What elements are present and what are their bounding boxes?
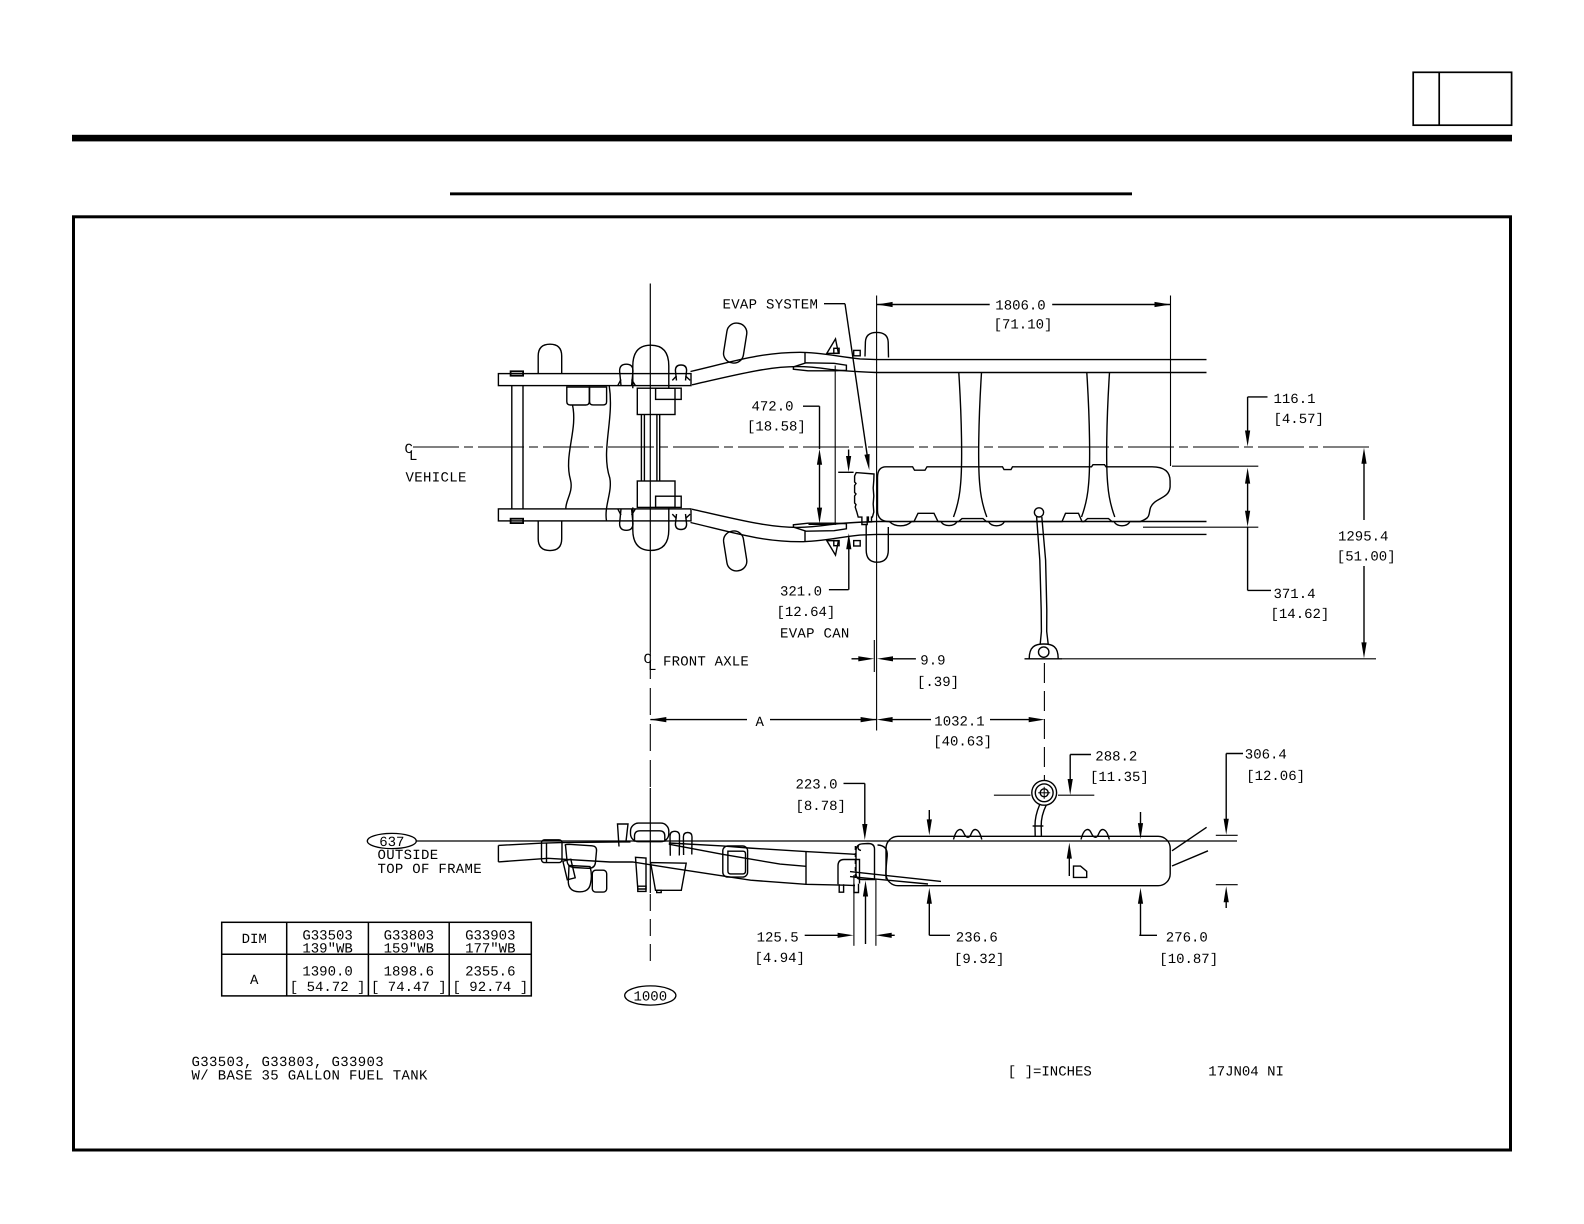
tank drain flap (1074, 866, 1087, 877)
dimension 125.5 [4.94] (853, 875, 855, 946)
svg-text:288.2: 288.2 (1095, 749, 1137, 765)
svg-text:1806.0: 1806.0 (995, 299, 1045, 315)
frame rail top inboard edge (plan) (692, 367, 1207, 385)
svg-text:[10.87]: [10.87] (1159, 952, 1218, 968)
rail joint tick top (804, 352, 806, 362)
rail joint tick bottom (804, 532, 806, 542)
svg-text:EVAP SYSTEM: EVAP SYSTEM (723, 297, 819, 313)
frame rail side view bottom edge (498, 858, 855, 885)
filler pipe to tank (side) (1035, 805, 1040, 837)
svg-text:[8.78]: [8.78] (796, 799, 846, 815)
clamp flag upper rail (827, 339, 839, 354)
tilted shock absorber lower (plan) (722, 530, 748, 573)
spring hanger upper-left (620, 364, 633, 385)
reference line outside top of frame (416, 840, 1237, 842)
crossmember No3 (plan) (954, 373, 962, 518)
front hanger bracket cluster (565, 844, 596, 868)
top header rule (thick) (72, 135, 1512, 142)
svg-text:[.39]: [.39] (917, 675, 959, 691)
spring bracket under top rail (793, 363, 846, 371)
tank strap bumps left (954, 830, 982, 840)
filler centerline dashed (1043, 663, 1045, 781)
front crossmember bottom bar (plan) (498, 509, 691, 521)
svg-text:159"WB: 159"WB (384, 942, 434, 958)
frame lines behind tank (850, 872, 941, 882)
fuel filler pipe (plan) (1037, 517, 1042, 645)
svg-text:EVAP CAN: EVAP CAN (780, 627, 850, 643)
spring hanger upper-right (675, 365, 686, 381)
svg-text:125.5: 125.5 (757, 930, 799, 946)
svg-text:[11.35]: [11.35] (1090, 770, 1149, 786)
svg-text:2355.6: 2355.6 (465, 964, 515, 980)
svg-text:1295.4: 1295.4 (1338, 530, 1388, 546)
svg-text:116.1: 116.1 (1274, 392, 1316, 408)
dimension 276.0 [10.87] (1140, 812, 1142, 826)
svg-text:[12.64]: [12.64] (777, 605, 836, 621)
spring bracket above bottom rail (793, 523, 846, 531)
svg-text:[ 92.74 ]: [ 92.74 ] (452, 980, 528, 996)
front crossmember top bar (plan) (498, 374, 691, 386)
svg-text:1000: 1000 (633, 989, 667, 1005)
dimension 9.9 [.39] (873, 640, 875, 672)
dimension 116.1 [4.57] (1248, 396, 1268, 398)
dimension 1806.0 [71.10] (876, 296, 878, 731)
small bracket square on bottom rail (854, 541, 861, 546)
svg-text:[4.94]: [4.94] (755, 951, 805, 967)
svg-text:[4.57]: [4.57] (1274, 412, 1324, 428)
svg-text:177"WB: 177"WB (465, 942, 515, 958)
svg-text:[18.58]: [18.58] (747, 420, 806, 436)
frame clip loops (670, 831, 680, 856)
frame rail bottom inboard edge (plan) (692, 509, 1207, 527)
axle upper block (637, 388, 675, 414)
reference line tank top extended (1172, 465, 1258, 467)
dimension 306.4 [12.06] (1226, 753, 1243, 755)
spring hanger lower-left (620, 509, 633, 530)
engine crossmember wavy web (plan) (567, 387, 590, 405)
extension line frame bracket (834, 366, 836, 526)
frame rail joint line (805, 852, 807, 885)
svg-text:[14.62]: [14.62] (1271, 607, 1330, 623)
svg-text:9.9: 9.9 (920, 653, 945, 669)
cab mount body upper (plan) (865, 332, 889, 357)
dimension 1032.1 [40.63] (877, 717, 893, 722)
fuel tank outline (side view) (886, 836, 1170, 885)
bumper bracket verticals (plan) (511, 386, 513, 509)
frame rail bottom outboard edge (plan) (691, 523, 1207, 542)
svg-text:1390.0: 1390.0 (302, 964, 352, 980)
centerline symbol CL front axle (644, 652, 652, 668)
dimension 321.0 [12.64] EVAP CAN (848, 450, 850, 460)
centerline symbol CL vehicle (405, 442, 413, 458)
svg-text:[51.00]: [51.00] (1337, 549, 1396, 565)
reference line rail extended (1143, 526, 1258, 528)
tilted shock absorber upper (plan) (722, 322, 748, 365)
svg-text:[71.10]: [71.10] (994, 318, 1053, 334)
svg-text:A: A (250, 973, 259, 989)
svg-text:321.0: 321.0 (780, 585, 822, 601)
dark clamp tick upper bar (511, 371, 523, 375)
svg-text:139"WB: 139"WB (302, 942, 352, 958)
shock bracket mid frame (723, 846, 748, 877)
shackle strip under kick (636, 857, 647, 889)
axle lower block (637, 481, 675, 507)
svg-text:[40.63]: [40.63] (933, 734, 992, 750)
svg-text:1032.1: 1032.1 (934, 714, 984, 730)
crossmember No4 (plan) (1082, 373, 1090, 518)
EVAP canister (plan) (855, 473, 874, 525)
steering knuckle dome upper (633, 345, 669, 388)
axle beam verticals (640, 415, 642, 482)
title underline (450, 192, 1132, 195)
front tire lower (plan) (538, 521, 562, 551)
svg-text:L: L (409, 449, 417, 465)
frame front horn details (542, 840, 563, 863)
svg-text:306.4: 306.4 (1245, 747, 1287, 763)
wheelbase table (222, 922, 532, 996)
small bracket square on top rail (854, 350, 861, 355)
spring hanger lower-right (675, 514, 686, 530)
dimension 236.6 [9.32] (928, 810, 930, 822)
vehicle centerline (horizontal dash-dot) (413, 446, 1374, 448)
kick-up hump outer (631, 823, 669, 842)
svg-text:FRONT AXLE: FRONT AXLE (663, 655, 749, 671)
svg-text:371.4: 371.4 (1274, 587, 1316, 603)
fuel filler funnel (plan) (1029, 644, 1058, 659)
front tire upper (plan) (538, 344, 562, 373)
drawing border frame (74, 217, 1511, 1150)
svg-text:L: L (648, 659, 656, 675)
dimension 1295.4 [51.00] (1361, 448, 1366, 464)
svg-text:472.0: 472.0 (752, 399, 794, 415)
frame rail top outboard edge (plan) (691, 352, 1207, 371)
svg-text:17JN04 NI: 17JN04 NI (1208, 1064, 1284, 1080)
filler reference line (plan) (1062, 658, 1376, 660)
station ellipse 1000 (625, 986, 676, 1005)
front axle centerline (vertical) (649, 284, 651, 653)
svg-text:[12.06]: [12.06] (1246, 769, 1305, 785)
rear rail rising past tank (1172, 827, 1207, 851)
svg-text:TOP OF FRAME: TOP OF FRAME (378, 862, 482, 878)
fuel filler cap (plan) (1034, 508, 1043, 517)
svg-text:DIM: DIM (242, 932, 267, 948)
rear cab mount bracket side (856, 844, 875, 880)
cab mount body lower (plan) (866, 525, 888, 562)
filler ring tick line (994, 794, 1031, 796)
svg-text:[9.32]: [9.32] (954, 952, 1004, 968)
fuel tank outline (plan) (878, 465, 1171, 526)
frame rail side view top edge (497, 845, 499, 862)
svg-text:[ 74.47 ]: [ 74.47 ] (371, 980, 447, 996)
svg-text:A: A (756, 715, 765, 731)
dimension A (wheelbase ref) (650, 719, 747, 721)
tank strap bumps right (1081, 830, 1109, 840)
spring trapezoid bracket (651, 863, 687, 891)
svg-text:[ ]=INCHES: [ ]=INCHES (1008, 1064, 1092, 1080)
svg-text:1898.6: 1898.6 (384, 964, 434, 980)
dimension 371.4 [14.62] (1245, 468, 1250, 484)
svg-text:VEHICLE: VEHICLE (406, 470, 467, 486)
svg-text:276.0: 276.0 (1166, 931, 1208, 947)
datum ellipse 637 (367, 833, 416, 848)
filler neck ring (side view) (1032, 780, 1057, 805)
dimension 288.2 [11.35] (1070, 754, 1091, 756)
dark clamp tick lower bar (511, 519, 523, 523)
clamp flag lower rail (827, 541, 839, 556)
clamp flag on hump (618, 824, 629, 847)
steering knuckle dome lower (633, 507, 669, 550)
kick-up hump inner (635, 831, 665, 842)
revision tab box top right (1413, 72, 1511, 125)
svg-text:W/ BASE 35 GALLON FUEL TANK: W/ BASE 35 GALLON FUEL TANK (192, 1069, 429, 1085)
frame rail side view mid line (669, 844, 806, 866)
svg-text:[ 54.72 ]: [ 54.72 ] (290, 980, 366, 996)
svg-text:223.0: 223.0 (796, 778, 838, 794)
svg-text:236.6: 236.6 (956, 931, 998, 947)
